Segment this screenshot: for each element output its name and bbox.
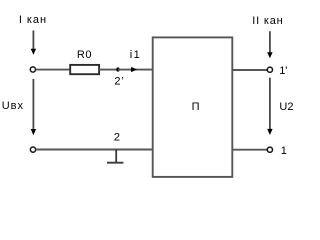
svg-text:i1: i1 <box>130 49 142 61</box>
wire: П to terminal 1' <box>232 69 267 71</box>
ground stem <box>115 150 117 163</box>
svg-text:Uвх: Uвх <box>2 100 24 112</box>
svg-text:R0: R0 <box>77 49 92 61</box>
svg-text:1': 1' <box>279 65 287 77</box>
svg-text:II кан: II кан <box>252 15 283 27</box>
current i1 arrowhead <box>131 67 137 72</box>
resistor R0 <box>70 65 99 74</box>
terminal (bottom-left) <box>30 147 35 152</box>
svg-text:2’: 2’ <box>114 75 124 87</box>
svg-text:U2: U2 <box>279 101 293 113</box>
wire: top-left terminal to R0 <box>36 69 71 71</box>
terminal 1' <box>267 67 272 72</box>
svg-text:1: 1 <box>281 145 287 157</box>
node 2' junction dot <box>116 67 119 71</box>
converter block П <box>153 37 233 177</box>
II кан output current arrow <box>267 31 272 58</box>
svg-text:I кан: I кан <box>19 14 47 26</box>
wire: bottom-left terminal to П <box>36 149 153 151</box>
Uвх voltage arrow <box>31 79 36 135</box>
wire: П to terminal 1 <box>232 149 267 151</box>
ground bar <box>107 162 123 164</box>
terminal (top-left, input) <box>30 67 35 72</box>
svg-text:П: П <box>192 101 200 113</box>
wire: R0 to node 2' <box>99 69 118 71</box>
I кан input current arrow <box>31 30 36 54</box>
svg-text:2: 2 <box>114 131 120 143</box>
U2 voltage arrow <box>267 78 272 135</box>
terminal 1 <box>267 147 272 152</box>
wire: node 2' to П block <box>118 69 153 71</box>
